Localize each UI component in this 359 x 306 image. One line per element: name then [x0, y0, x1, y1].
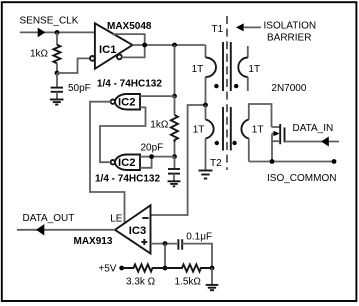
ground below C2	[168, 180, 181, 182]
wire SENSE_CLK input line	[20, 31, 95, 33]
svg-text:3.3k Ω: 3.3k Ω	[126, 277, 156, 288]
wire T2 primary junction to comparator minus input	[151, 105, 206, 215]
svg-text:LE: LE	[110, 213, 123, 224]
wire IC2b lower input tie	[140, 157, 152, 168]
node junction T1/T2 primaries	[203, 103, 208, 108]
pin plus sign	[141, 241, 147, 243]
node junction output/feedback	[142, 43, 147, 48]
pin minus sign	[142, 217, 148, 219]
arrow DATA_OUT flow	[36, 224, 44, 235]
svg-text:1T: 1T	[248, 64, 260, 75]
capacitor C3 0.1uF	[177, 239, 179, 250]
svg-text:50pF: 50pF	[68, 83, 91, 94]
polarity dot T1 right	[234, 84, 238, 88]
svg-text:1/4 - 74HC132: 1/4 - 74HC132	[97, 79, 162, 90]
node junction Q1 source	[270, 159, 275, 164]
node junction R2/IC2b inputs	[172, 154, 177, 159]
svg-text:1kΩ: 1kΩ	[150, 119, 169, 130]
svg-text:ISO_COMMON: ISO_COMMON	[267, 173, 336, 184]
isolation barrier dashed line	[226, 16, 228, 170]
wire DATA_IN	[285, 141, 340, 143]
svg-text:IC2: IC2	[118, 96, 135, 108]
wire IC3 output DATA_OUT	[17, 229, 115, 231]
node +5V terminal	[119, 266, 124, 271]
node junction rail/plus	[163, 266, 168, 271]
svg-text:DATA_OUT: DATA_OUT	[23, 213, 75, 224]
svg-text:T2: T2	[210, 158, 222, 169]
svg-text:0.1μF: 0.1μF	[186, 232, 212, 243]
transformer core T2	[222, 107, 224, 151]
node junction IC2 input / branch	[172, 94, 177, 99]
svg-text:+5V: +5V	[98, 263, 116, 274]
svg-text:1.5kΩ: 1.5kΩ	[175, 277, 202, 288]
svg-text:20pF: 20pF	[141, 142, 164, 153]
svg-text:1T: 1T	[252, 125, 264, 136]
wire junction to C1	[56, 73, 58, 87]
nand gate IC2b (points left)	[115, 155, 140, 171]
transformer T1 secondary winding	[247, 46, 249, 58]
svg-text:BARRIER: BARRIER	[267, 33, 311, 44]
nand gate IC2a (points left)	[115, 94, 140, 110]
resistor R2 1k vertical	[174, 96, 176, 115]
wire IC2a top input	[140, 95, 175, 97]
wire main vertical from IC1 output down	[174, 45, 176, 96]
pin bubble IC2b output	[111, 160, 115, 164]
wire R2 to C2	[174, 157, 176, 169]
transistor Q1 2N7000	[272, 126, 280, 128]
svg-text:SENSE_CLK: SENSE_CLK	[20, 15, 79, 26]
polarity dot T2 left	[215, 141, 219, 145]
wire IC2a bottom input loop to IC2b output	[100, 107, 146, 162]
wire IC2b upper input	[140, 156, 175, 158]
comparator IC3 MAX913 triangle (points left)	[115, 205, 151, 253]
wire C3 right to ground	[182, 244, 212, 268]
svg-text:1kΩ: 1kΩ	[30, 49, 49, 60]
svg-text:IC1: IC1	[99, 44, 116, 56]
node junction R1/C1	[55, 71, 60, 76]
op-amp driver IC1 MAX5048 triangle	[95, 23, 133, 69]
pin bubble IC1 input low	[90, 56, 95, 61]
node ISO_COMMON terminal	[332, 159, 337, 164]
capacitor C2 20pF	[168, 168, 180, 170]
wire R1 bottom to IC1 INN bubble	[57, 58, 90, 73]
capacitor C1 50pF	[51, 87, 63, 89]
ground bottom right	[211, 268, 213, 284]
transformer T2 secondary winding	[249, 104, 272, 127]
svg-text:IC3: IC3	[129, 225, 146, 237]
wire IC3 plus input	[151, 243, 178, 245]
svg-text:1/4 - 74HC132: 1/4 - 74HC132	[95, 173, 160, 184]
pin bubble IC1 bottom edge	[117, 55, 122, 60]
node junction SENSE_CLK/R1	[55, 30, 60, 35]
node junction IC2b inputs	[149, 154, 154, 159]
svg-text:MAX913: MAX913	[74, 236, 113, 247]
polarity dot T2 right	[232, 141, 236, 145]
resistor R3 3.3k horizontal	[122, 264, 165, 271]
transformer core T1	[222, 42, 224, 91]
arrow input flow	[38, 28, 46, 38]
wire IC1 top pin loop	[113, 34, 145, 57]
svg-text:1T: 1T	[192, 64, 204, 75]
svg-text:1T: 1T	[193, 125, 205, 136]
wire ISO_COMMON rail	[249, 161, 334, 163]
node junction output/main vertical	[172, 43, 177, 48]
arrow to barrier	[244, 26, 261, 28]
transformer T1 primary winding	[205, 45, 207, 58]
node junction C3/1.5k/gnd	[210, 266, 215, 271]
wire IC1 output	[133, 44, 206, 46]
svg-text:ISOLATION: ISOLATION	[264, 21, 317, 32]
polarity dot T1 left	[214, 84, 218, 88]
node junction plus input	[163, 241, 168, 246]
ground below T2 primary	[199, 170, 213, 172]
transformer T2 primary winding	[205, 105, 207, 120]
svg-text:DATA_IN: DATA_IN	[293, 123, 334, 134]
ground below C1	[50, 99, 64, 101]
wire IC2a output to comparator LE	[90, 102, 125, 224]
svg-text:T1: T1	[212, 24, 224, 35]
resistor R4 1.5k horizontal	[165, 264, 212, 271]
svg-text:MAX5048: MAX5048	[107, 21, 152, 32]
pin bubble IC2a output	[111, 100, 115, 104]
wire plus input down to rail	[164, 244, 166, 268]
svg-text:2N7000: 2N7000	[271, 83, 306, 94]
resistor R1 1k vertical	[56, 32, 58, 45]
svg-text:IC2: IC2	[118, 157, 135, 169]
arrow DATA_IN flow	[321, 137, 329, 147]
